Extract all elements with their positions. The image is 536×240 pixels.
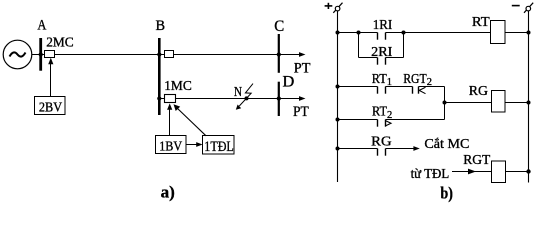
svg-text:1MC: 1MC <box>164 79 192 94</box>
svg-text:2MC: 2MC <box>46 35 73 50</box>
svg-text:2RI: 2RI <box>371 45 393 60</box>
svg-text:Cắt MC: Cắt MC <box>424 137 469 152</box>
svg-text:2BV: 2BV <box>39 100 62 115</box>
svg-text:RT: RT <box>472 15 490 30</box>
svg-text:RGT: RGT <box>463 153 490 168</box>
svg-text:1RI: 1RI <box>373 18 393 33</box>
svg-text:RG: RG <box>371 134 391 149</box>
svg-text:a): a) <box>161 183 175 202</box>
svg-text:D: D <box>283 74 295 91</box>
svg-text:A: A <box>37 17 46 33</box>
svg-text:1TĐL: 1TĐL <box>204 139 234 155</box>
svg-text:N: N <box>234 85 242 100</box>
svg-text:từ TĐL: từ TĐL <box>411 167 450 182</box>
svg-text:1BV: 1BV <box>159 140 182 155</box>
svg-text:B: B <box>156 18 166 34</box>
svg-text:RG: RG <box>469 84 488 99</box>
svg-text:b): b) <box>440 183 453 202</box>
svg-text:C: C <box>274 18 284 35</box>
svg-text:PT: PT <box>293 104 309 120</box>
svg-text:PT: PT <box>294 60 311 76</box>
